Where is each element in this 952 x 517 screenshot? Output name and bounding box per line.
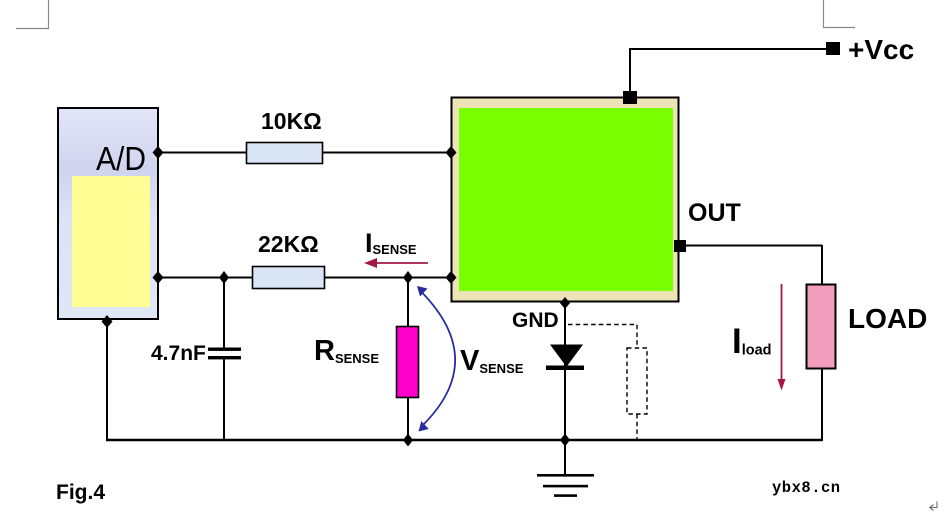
junction node D (GND rail) <box>560 434 570 447</box>
svg-text:VSENSE: VSENSE <box>460 345 524 377</box>
wire rail to earth <box>564 441 566 475</box>
wire junction A down to capacitor <box>223 278 225 348</box>
wire Rsense to rail <box>407 397 409 440</box>
wire OUT down to load <box>821 245 823 284</box>
pin diamond IC left lower <box>446 271 457 284</box>
resistor LOAD body <box>807 285 836 369</box>
current arrow Iload <box>778 284 786 391</box>
wire A/D to R2 <box>159 277 252 279</box>
paragraph return mark <box>930 502 937 511</box>
svg-text:22KΩ: 22KΩ <box>258 231 319 257</box>
svg-text:OUT: OUT <box>688 199 741 227</box>
wire R1 to IC <box>322 152 451 154</box>
svg-text:RSENSE: RSENSE <box>314 335 379 367</box>
resistor R2 22K body <box>253 267 325 289</box>
dashed link wire from GND node <box>568 325 637 349</box>
wire node B down to Rsense <box>407 278 409 327</box>
svg-text:+Vcc: +Vcc <box>848 34 914 65</box>
svg-text:GND: GND <box>512 309 559 332</box>
current arrow Isense <box>364 258 428 268</box>
wire +Vcc horizontal <box>629 48 828 50</box>
IC U1 outer body <box>452 98 679 302</box>
resistor R1 10K body <box>247 143 323 164</box>
A/D converter block <box>58 108 158 319</box>
frame corner mark top-right <box>824 0 856 28</box>
wire A/D bottom to rail <box>106 320 108 440</box>
svg-text:ISENSE: ISENSE <box>365 228 417 258</box>
svg-text:Iload: Iload <box>732 322 772 361</box>
ground earth symbol <box>537 474 594 497</box>
wire R2 to IC <box>324 277 451 279</box>
capacitor C1 top plate <box>208 348 241 351</box>
diode D1 <box>546 345 584 370</box>
dashed wire to rail <box>636 414 638 440</box>
capacitor C1 bottom plate <box>208 356 241 359</box>
pin diamond A/D right upper <box>153 146 164 159</box>
svg-text:Fig.4: Fig.4 <box>56 481 105 504</box>
wire OUT horizontal <box>686 245 822 247</box>
wire +Vcc vertical drop to IC top pin <box>629 48 631 93</box>
pin square IC right (OUT) <box>674 240 686 252</box>
pin node IC bottom (GND) <box>560 297 570 309</box>
svg-text:A/D: A/D <box>96 140 146 177</box>
ground rail wire <box>106 439 822 441</box>
junction node A (cap tap) <box>219 271 229 284</box>
dashed component box <box>627 348 647 414</box>
resistor Rsense body <box>397 327 419 398</box>
frame corner mark top-left <box>16 0 49 29</box>
junction node C (Rsense bottom) <box>403 434 413 447</box>
IC U1 inner green area <box>459 108 673 291</box>
wire A/D to R1 <box>159 152 246 154</box>
A/D yellow display area <box>72 176 150 307</box>
node square +Vcc terminal <box>826 42 840 55</box>
wire load to rail <box>821 368 823 441</box>
voltage arc Vsense <box>417 286 455 432</box>
wire IC GND to rail <box>564 303 566 440</box>
pin square IC top (Vcc) <box>623 91 637 104</box>
pin diamond A/D bottom <box>102 315 113 328</box>
pin diamond IC left upper <box>446 146 457 159</box>
pin diamond A/D right lower <box>153 271 164 284</box>
junction node B (Rsense tap) <box>403 271 413 284</box>
svg-text:ybx8.cn: ybx8.cn <box>772 479 841 497</box>
svg-text:LOAD: LOAD <box>848 303 927 334</box>
wire capacitor to ground rail <box>223 359 225 441</box>
svg-text:4.7nF: 4.7nF <box>151 342 206 365</box>
svg-text:10KΩ: 10KΩ <box>261 108 322 134</box>
